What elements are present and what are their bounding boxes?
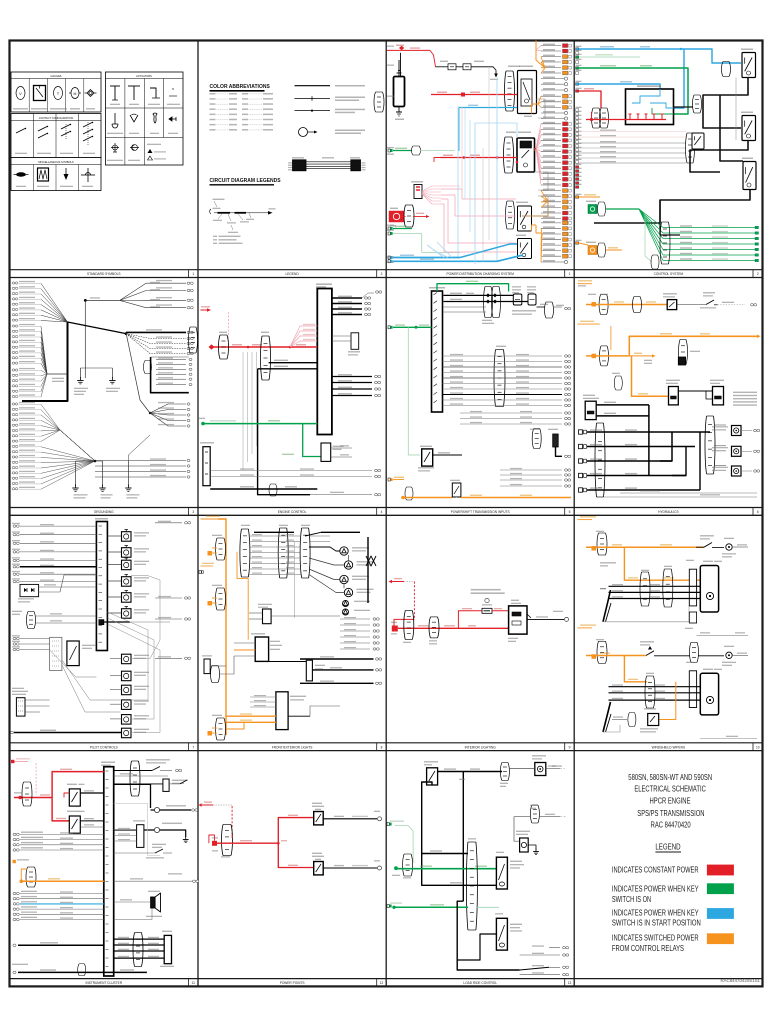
dome lamp assembly bbox=[509, 606, 527, 634]
pink fan to ECU bbox=[290, 326, 317, 347]
hazard switch bbox=[306, 660, 312, 681]
gauge symbol sender bbox=[87, 90, 94, 97]
orange stub wire 2 bbox=[579, 243, 588, 245]
svg-text:CIRCUIT DIAGRAM LEGENDS: CIRCUIT DIAGRAM LEGENDS bbox=[210, 178, 282, 184]
title strip row 4 bbox=[10, 978, 763, 980]
fuse pair top right bbox=[513, 294, 522, 305]
red main bus bbox=[398, 627, 509, 629]
solenoid box run1 bbox=[667, 300, 677, 310]
horn circuit bbox=[114, 784, 151, 808]
right fan dashed rows bbox=[126, 334, 186, 339]
svg-text:INDICATES CONSTANT POWER: INDICATES CONSTANT POWER bbox=[612, 865, 699, 874]
bottom ground symbols bbox=[75, 461, 77, 486]
legend wire sample not connected bbox=[295, 110, 331, 112]
legend connector blocks bbox=[293, 160, 307, 171]
extra rows below bbox=[460, 412, 562, 414]
thick drop to bottom bbox=[258, 369, 310, 495]
svg-text:COLOR ABBREVIATIONS: COLOR ABBREVIATIONS bbox=[210, 84, 271, 90]
blue wire vertical to key switch bbox=[674, 49, 685, 109]
link to cab ground bbox=[85, 299, 120, 301]
front wiper power wire bbox=[586, 546, 704, 548]
front wiper motor box bbox=[700, 566, 718, 613]
main vertical drop bbox=[462, 772, 464, 902]
battery bbox=[394, 77, 405, 107]
washer pump box bbox=[648, 714, 659, 726]
pilot right edge stubs bbox=[155, 522, 182, 524]
svg-text:*: * bbox=[172, 88, 174, 94]
blue wire 2 into key switch bbox=[579, 84, 660, 89]
symbols box CONTACT CONFIGURATION bbox=[11, 114, 101, 158]
bottom right thin wire bbox=[700, 738, 757, 740]
svg-text:STANDARD SYMBOLS: STANDARD SYMBOLS bbox=[87, 272, 121, 276]
svg-text:RAC 84470420: RAC 84470420 bbox=[651, 820, 691, 829]
ground bus bracket thick bbox=[22, 322, 68, 401]
color abbreviation table bbox=[210, 93, 216, 95]
crossing wires symbol bbox=[81, 174, 95, 176]
bottom right rows bbox=[549, 947, 560, 949]
legend notes bbox=[213, 236, 217, 237]
red main pp bbox=[217, 842, 278, 844]
aux relay 1 bbox=[506, 201, 508, 229]
ECU main connector bbox=[317, 289, 332, 435]
green wire key on bbox=[579, 68, 688, 114]
left edge labels P3 bbox=[387, 46, 394, 47]
svg-text:FROM CONTROL RELAYS: FROM CONTROL RELAYS bbox=[612, 944, 684, 953]
orange fanout hub 3 bbox=[541, 191, 548, 201]
wiper arm symbol front bbox=[603, 590, 611, 622]
speaker bbox=[151, 897, 156, 908]
radio connector box bbox=[137, 825, 144, 848]
blue feed wires bottom bbox=[388, 256, 390, 259]
front wiper return path bbox=[603, 606, 689, 622]
bottom left connector pair rows bbox=[595, 423, 597, 497]
grounding left rows group1 bbox=[12, 282, 15, 284]
title strip row 2 bbox=[10, 507, 763, 509]
gray verticals bbox=[488, 67, 490, 240]
rear washer motor sym bbox=[654, 655, 690, 657]
gauge symbol hourmeter bbox=[34, 86, 46, 101]
right lower fan hub bbox=[149, 412, 151, 414]
grounding left rows group2 bbox=[12, 403, 15, 405]
hydraulic relay 1 bbox=[669, 387, 679, 405]
pilot bottom thick wire bbox=[14, 732, 122, 734]
signal rows across bbox=[443, 355, 563, 357]
connector pair before key switch bbox=[592, 108, 594, 128]
svg-text:11: 11 bbox=[192, 981, 196, 985]
front wiper switch bbox=[704, 543, 712, 548]
symbols box GAUGES bbox=[11, 72, 101, 112]
orange tap connector bbox=[592, 654, 597, 659]
beacon ground bbox=[528, 845, 536, 850]
thick wires top lamps bbox=[321, 531, 360, 533]
lens connector top bbox=[484, 287, 486, 318]
pilot conn oval left bbox=[27, 612, 29, 629]
cigar lighter bbox=[114, 783, 163, 785]
red dot junction mid bbox=[516, 161, 519, 164]
orange vertical bus bbox=[218, 519, 226, 735]
rows to right lamps bbox=[309, 535, 330, 537]
svg-text:POWER DISTRIBUTION CHARGING SY: POWER DISTRIBUTION CHARGING SYSTEM bbox=[446, 272, 514, 276]
pale green wire bbox=[579, 56, 640, 58]
hydraulic relay 2 bbox=[713, 387, 724, 405]
orange feed bottom bbox=[388, 478, 390, 481]
svg-text:LEGEND: LEGEND bbox=[286, 272, 300, 276]
right row 2 bbox=[114, 775, 168, 777]
orange fanout hub top bbox=[535, 41, 537, 51]
contact symbols bbox=[16, 129, 25, 134]
cluster left rows group1 bbox=[13, 833, 16, 835]
orange bottom hook bbox=[226, 722, 244, 729]
gray vertical pairs bbox=[242, 352, 244, 470]
blue wire to starter relay bbox=[459, 107, 517, 109]
red branch up bbox=[278, 818, 313, 844]
red riser bbox=[52, 772, 104, 798]
orange drop to motor rows bbox=[624, 547, 700, 580]
fuel sender wire bbox=[114, 880, 193, 882]
red dot and loop bbox=[212, 841, 217, 846]
actuator glyph row3 bbox=[111, 143, 119, 152]
green engine wire bbox=[201, 422, 205, 426]
svg-text:FRONT/EXTERIOR LIGHTS: FRONT/EXTERIOR LIGHTS bbox=[272, 745, 313, 749]
rear aux power outlet bbox=[314, 862, 324, 875]
pilot left rows bbox=[13, 525, 16, 527]
gray connective wires relay area bbox=[536, 99, 545, 118]
vertical harness bbox=[660, 432, 672, 461]
lens connector mid bbox=[679, 340, 681, 365]
svg-text:13: 13 bbox=[568, 981, 572, 985]
pilot diagonal bundle bbox=[108, 612, 149, 700]
orange stub top bbox=[578, 283, 593, 285]
pilot bottom-left rows bbox=[13, 637, 16, 639]
temp transmitter circle bbox=[114, 829, 154, 831]
pilot dashed box bbox=[50, 637, 62, 670]
gauge symbol voltmeter bbox=[16, 87, 25, 100]
right fan hub bbox=[68, 322, 127, 334]
svg-text:HPCR ENGINE: HPCR ENGINE bbox=[650, 797, 691, 806]
orange run 2 bbox=[592, 354, 597, 359]
pale green drop to relay bbox=[408, 327, 420, 455]
combination switch bbox=[255, 637, 268, 661]
relay small mid bbox=[692, 133, 704, 149]
svg-text:1: 1 bbox=[569, 272, 571, 276]
rear wiper connector columns bbox=[645, 676, 647, 708]
aux relay 2 bbox=[518, 239, 532, 259]
svg-text:POWERSHIFT TRANSMISSION INPUTS: POWERSHIFT TRANSMISSION INPUTS bbox=[451, 510, 510, 514]
svg-text:2: 2 bbox=[757, 272, 759, 276]
ECU right thick rows lower bbox=[332, 376, 372, 378]
rear wiper signal rows bbox=[609, 686, 701, 688]
connector oval on green bundle bbox=[660, 222, 662, 264]
gray bottom wires bbox=[620, 492, 757, 494]
red fan hub bbox=[536, 124, 541, 149]
backup alarm box bbox=[69, 816, 80, 833]
cigarette lighter ground bbox=[169, 783, 180, 785]
orange run 1 bbox=[592, 302, 597, 307]
orange drop to relays bbox=[632, 356, 669, 396]
ECM status box bbox=[351, 333, 359, 350]
actuator legend entries bbox=[147, 144, 161, 145]
ride control relay top bbox=[427, 768, 438, 785]
lens connector columns bbox=[240, 529, 242, 577]
svg-text:PILOT CONTROLS: PILOT CONTROLS bbox=[90, 745, 118, 749]
left thick loop bbox=[422, 782, 497, 885]
red branch upper bbox=[458, 611, 482, 629]
orange feed stub top bbox=[201, 518, 219, 520]
svg-text:3: 3 bbox=[192, 510, 194, 514]
wires strip to fuses bbox=[444, 294, 514, 296]
svg-text:LOAD RIDE CONTROL: LOAD RIDE CONTROL bbox=[463, 981, 497, 985]
wiper arm symbol rear bbox=[603, 702, 611, 732]
rows to right edge mid bbox=[340, 618, 370, 620]
red bus left bbox=[18, 796, 21, 799]
red feed stub bbox=[392, 581, 404, 583]
wire rows between connectors bbox=[249, 535, 301, 537]
svg-text:POWER POINTS: POWER POINTS bbox=[280, 981, 305, 985]
turn flasher bbox=[263, 609, 272, 624]
green component lower left bbox=[588, 205, 597, 214]
starter relay block bbox=[505, 71, 507, 111]
pilot gray links bbox=[50, 650, 97, 677]
rear return path bbox=[603, 725, 620, 732]
svg-text:RAC84470420S1S1: RAC84470420S1S1 bbox=[720, 978, 760, 983]
pale link down bbox=[114, 803, 160, 855]
front wiper connector columns bbox=[640, 572, 642, 606]
gauge symbol motor bbox=[71, 88, 79, 99]
front aux power outlet bbox=[314, 812, 324, 825]
terminal row wires and stubs bbox=[541, 45, 561, 47]
chassis ground symbol bbox=[111, 368, 113, 378]
left edge stub column P4 bbox=[576, 48, 579, 51]
orange run 2 stub bbox=[578, 323, 600, 325]
pink bus lines bbox=[441, 189, 516, 199]
svg-text:ELECTRICAL SCHEMATIC: ELECTRICAL SCHEMATIC bbox=[634, 785, 706, 794]
lens connector near batt relay bbox=[722, 62, 724, 77]
interior connector ovals bbox=[404, 611, 406, 640]
svg-text:ACTUATORS: ACTUATORS bbox=[136, 74, 152, 78]
ether start switch bbox=[114, 770, 152, 772]
park switch box front bbox=[689, 612, 696, 623]
green key wire left bbox=[388, 326, 390, 329]
thick vertical right bbox=[367, 537, 369, 603]
svg-text:INDICATES POWER WHEN KEY: INDICATES POWER WHEN KEY bbox=[612, 885, 699, 894]
antenna mark bbox=[366, 556, 376, 566]
left small boxes bbox=[204, 659, 210, 674]
front wiper signal rows bbox=[609, 585, 701, 587]
ignition relay block bbox=[504, 137, 506, 173]
svg-text:6: 6 bbox=[757, 510, 759, 514]
fuse box with pink fanout bbox=[414, 185, 422, 199]
svg-text:V: V bbox=[19, 91, 22, 96]
green vertical drop bbox=[645, 213, 652, 262]
right fan main thick row bbox=[126, 331, 186, 333]
pink dashed drop bbox=[228, 312, 230, 344]
title strip row 1 bbox=[10, 269, 763, 271]
orange sender row bbox=[13, 860, 16, 863]
green feed 1 bbox=[387, 823, 389, 826]
blue wire to ignition relay bbox=[475, 123, 517, 264]
svg-text:SWITCH IS ON: SWITCH IS ON bbox=[612, 895, 651, 904]
red dashed drop bbox=[413, 582, 415, 620]
orange drop rear bbox=[624, 656, 647, 682]
orange fanout hub bottom bbox=[536, 225, 542, 233]
bottom connector bbox=[269, 484, 271, 496]
pilot relay box bbox=[67, 641, 79, 666]
red feed stub bbox=[12, 761, 28, 763]
svg-text:INDICATES POWER WHEN KEY: INDICATES POWER WHEN KEY bbox=[612, 908, 699, 917]
bottom gray rows bbox=[210, 470, 372, 472]
svg-text:WINDSHIELD WIPERS: WINDSHIELD WIPERS bbox=[652, 745, 685, 749]
svg-text:4: 4 bbox=[381, 510, 383, 514]
pp connector oval bbox=[222, 825, 224, 856]
svg-text:1: 1 bbox=[192, 272, 194, 276]
rear wiper switch bbox=[646, 651, 654, 656]
oval connector right mid bbox=[189, 327, 191, 353]
actuator glyph row1 bbox=[114, 86, 116, 100]
neutral start relay bbox=[422, 449, 433, 466]
speaker connector lower right bbox=[532, 429, 534, 449]
orange stub bbox=[578, 627, 593, 629]
cluster left rows group2 bbox=[13, 892, 16, 894]
top connector oval bbox=[500, 763, 502, 781]
red wire to key switch bbox=[579, 91, 601, 108]
orange vertical secondary bbox=[237, 552, 248, 640]
splice symbol bbox=[16, 172, 26, 176]
orange stub wire bbox=[579, 196, 600, 198]
wire between relays bbox=[678, 390, 712, 392]
green key-on wires left bbox=[388, 149, 390, 152]
thick black rows lower bbox=[300, 658, 374, 660]
red bus through key switch bbox=[590, 118, 593, 121]
svg-text:MISCELLANEOUS SYMBOLS: MISCELLANEOUS SYMBOLS bbox=[38, 160, 74, 164]
pressure switch top right bbox=[509, 768, 534, 770]
svg-text:INTERIOR LIGHTING: INTERIOR LIGHTING bbox=[465, 745, 497, 749]
top right ground rows bbox=[120, 283, 186, 300]
relay battery top right bbox=[742, 53, 756, 78]
connector ovals on red bus bbox=[219, 335, 221, 359]
svg-text:HYDRAULICS: HYDRAULICS bbox=[658, 510, 679, 514]
title strip row 3 bbox=[10, 742, 763, 744]
orange branch to washer pump bbox=[659, 682, 676, 720]
connector oval right of fuses bbox=[545, 302, 547, 318]
svg-text:10: 10 bbox=[756, 745, 760, 749]
battery ground bbox=[398, 107, 400, 113]
pilot solenoid column upper bbox=[122, 532, 132, 542]
actuator glyph row2 bbox=[112, 113, 118, 128]
orange connector taps bbox=[216, 538, 218, 560]
top thick wire bbox=[438, 771, 502, 773]
bottom right connector to radio bbox=[133, 933, 135, 967]
relay accessory right bbox=[742, 116, 756, 141]
svg-text:CONTROL SYSTEM: CONTROL SYSTEM bbox=[654, 272, 684, 276]
EGR cooler box bbox=[203, 447, 210, 486]
svg-text:5: 5 bbox=[569, 510, 571, 514]
red bus to ECU bbox=[209, 344, 215, 349]
gauge symbol temp bbox=[54, 87, 63, 100]
rear wiper power wire bbox=[586, 655, 646, 657]
thick wires from left box bbox=[596, 404, 649, 406]
green wires lower left bbox=[388, 227, 390, 230]
orange fanout hub 2 bbox=[538, 96, 541, 104]
svg-text:ENGINE CONTROL: ENGINE CONTROL bbox=[278, 510, 307, 514]
transmission connector strip bbox=[432, 291, 443, 412]
orange component bottom left bbox=[588, 246, 597, 255]
central lens connector strip bbox=[466, 842, 468, 930]
svg-text:SPS/PS TRANSMISSION: SPS/PS TRANSMISSION bbox=[637, 809, 704, 818]
alternator bbox=[390, 212, 404, 222]
red feed stub pp bbox=[202, 804, 213, 806]
red power stub top left bbox=[200, 309, 207, 311]
mid connector C12 bbox=[693, 95, 695, 113]
relay start right bbox=[743, 162, 756, 190]
gray rows bottom right bbox=[500, 469, 562, 471]
svg-text:GAUGES: GAUGES bbox=[50, 74, 61, 78]
pink dashed drop bbox=[35, 763, 37, 795]
mid lens connector X13 bbox=[374, 92, 376, 112]
key switch bbox=[626, 89, 674, 125]
thick black harness routing bbox=[703, 78, 748, 129]
blue wire key start bbox=[579, 49, 741, 63]
symbols box ACTUATORS bbox=[106, 72, 184, 165]
right connector oval bbox=[705, 416, 707, 474]
svg-text:SWITCH IS IN START POSITION: SWITCH IS IN START POSITION bbox=[612, 918, 701, 927]
relay notes text block bbox=[733, 392, 757, 393]
grounding group1 fan to bus bbox=[41, 283, 68, 322]
cluster connector strip bbox=[104, 767, 114, 976]
resistor box symbol bbox=[38, 168, 49, 181]
long rows to right bottom bbox=[95, 460, 186, 462]
arrow symbol bbox=[65, 168, 67, 178]
red dashed drop pp bbox=[231, 806, 233, 835]
center lens connector bbox=[494, 350, 496, 407]
orange stub bbox=[578, 519, 593, 521]
pressure conn right mid bbox=[530, 805, 532, 823]
solenoid circles right bbox=[732, 426, 742, 436]
green fan distribution bbox=[639, 209, 663, 228]
svg-text:7: 7 bbox=[192, 745, 194, 749]
ECU top right thick wires bbox=[332, 297, 362, 299]
diode module bbox=[20, 584, 39, 596]
pressure switch run1 bbox=[677, 304, 706, 306]
legend wire sample connector bbox=[295, 97, 331, 99]
thick row lower bbox=[18, 944, 104, 946]
orange stub mid bbox=[201, 565, 214, 567]
front washer motor sym bbox=[712, 547, 724, 549]
pilot solenoid column lower bbox=[122, 654, 132, 664]
battery B+ wire bbox=[387, 49, 431, 51]
rear wiper note text bbox=[471, 589, 501, 591]
gray gather vertical bbox=[294, 541, 296, 618]
svg-text:580SN, 580SN-WT AND 590SN: 580SN, 580SN-WT AND 590SN bbox=[628, 773, 712, 782]
red bus feed bbox=[440, 157, 517, 159]
alarm relay box bbox=[69, 789, 80, 806]
symbols box MISCELLANEOUS SYMBOLS bbox=[11, 158, 101, 191]
beacon box bbox=[520, 838, 529, 852]
svg-text:INSTRUMENT CLUSTER: INSTRUMENT CLUSTER bbox=[85, 981, 122, 985]
bottom harness bbox=[78, 964, 80, 976]
orange wires into headlight switch bbox=[226, 715, 276, 717]
right thick frame box bbox=[151, 357, 189, 393]
head lamp symbols bbox=[340, 547, 348, 555]
rear wiper motor box bbox=[700, 673, 718, 715]
orange bus from relays bbox=[534, 149, 536, 151]
hand throttle box bbox=[16, 698, 25, 716]
svg-text:M: M bbox=[74, 92, 77, 96]
pilot strip dark pin bbox=[99, 620, 104, 625]
green wire to fan hub bbox=[606, 208, 639, 210]
blue fan convergence bbox=[433, 250, 448, 258]
green main to neutral relay bbox=[394, 866, 398, 870]
orange branch arrow bbox=[629, 355, 652, 357]
